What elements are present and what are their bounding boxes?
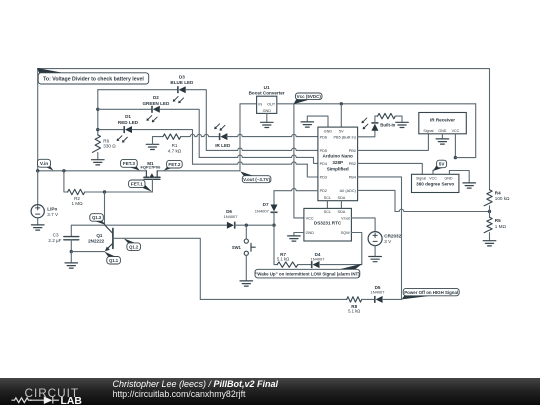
diode D3 BLUE LED [170, 74, 194, 103]
wire PD4 row [199, 155, 318, 163]
wire C3 bottom lead [70, 240, 72, 251]
svg-text:U1: U1 [264, 85, 270, 90]
flag Vcc (5VDC) [293, 93, 322, 104]
wire rail FET drain to V.out corner / U1 IN [157, 104, 256, 171]
svg-text:OUT: OUT [267, 102, 276, 106]
wire R5 top lead [489, 212, 491, 218]
svg-text:3 V: 3 V [384, 239, 392, 244]
wire U1 GND lead [266, 113, 268, 122]
wire PB5 lead [358, 131, 375, 137]
svg-text:1N4007: 1N4007 [255, 209, 270, 214]
svg-text:GND: GND [263, 109, 272, 113]
svg-text:100 kΩ: 100 kΩ [495, 196, 510, 201]
diode D7 1N4007 [255, 202, 278, 213]
svg-text:5.1 kΩ: 5.1 kΩ [277, 256, 289, 261]
wire PD2 row [274, 188, 318, 190]
flag V.out (~3.7V) [240, 171, 271, 182]
svg-text:5V: 5V [439, 162, 446, 167]
wire M1 gate lead [151, 179, 153, 192]
svg-text:Signal: Signal [423, 129, 433, 133]
wire SCL stub [326, 201, 328, 209]
svg-text:Arduino Nano: Arduino Nano [323, 153, 354, 158]
svg-text:R4: R4 [495, 190, 501, 195]
node junction Vcc/5V pin [340, 102, 343, 105]
svg-text:A0 (ADC): A0 (ADC) [340, 189, 357, 193]
svg-text:BLUE LED: BLUE LED [170, 80, 194, 85]
wire main rail V.in to FET source [38, 170, 147, 172]
resistor R8 [347, 297, 362, 314]
svg-text:FQP27P06: FQP27P06 [141, 165, 162, 170]
diode D4 1N4007 [310, 252, 325, 268]
svg-text:FET.1: FET.1 [131, 182, 143, 187]
ground Servo [463, 183, 476, 188]
svg-text:V.out (~3.7V): V.out (~3.7V) [243, 177, 270, 182]
flag FET.1 [129, 180, 152, 192]
svg-text:Vcc (5VDC): Vcc (5VDC) [297, 94, 322, 99]
wire PD3 row [193, 162, 318, 177]
wire PD5 row [206, 148, 318, 150]
ground DS3231 [288, 236, 301, 241]
diode D6 1N4007 [223, 209, 238, 229]
diode Built-In LED [362, 118, 396, 131]
wire CR2032 bottom lead [374, 246, 376, 257]
wire PB0 to IR Receiver Signal [358, 134, 429, 151]
flag Power Off on HIGH Signal [402, 288, 460, 299]
svg-text:R5: R5 [495, 218, 501, 223]
wire D3 anode to PD5 row [186, 90, 207, 151]
wire D6 cathode to junction [235, 224, 274, 226]
svg-text:1 MΩ: 1 MΩ [495, 224, 507, 229]
wire R2 left lead from rail [64, 171, 68, 192]
wire IR Receiver VCC lead [454, 134, 456, 158]
node junction R4/R5 [488, 210, 491, 213]
wire Vcc down to DS3231 VCC [294, 104, 304, 218]
svg-text:SCL: SCL [324, 196, 331, 200]
svg-text:Q1: Q1 [96, 233, 103, 238]
svg-text:CR2032: CR2032 [384, 234, 401, 239]
svg-text:PB2: PB2 [349, 162, 356, 166]
wire V.bat lead [351, 218, 375, 232]
wire PB2 to Servo Signal [358, 163, 423, 174]
wire collector row to D6 [105, 224, 227, 226]
wire DS3231 GND lead [294, 233, 304, 236]
resistor R3 built-in [378, 113, 396, 118]
svg-text:2.2 µF: 2.2 µF [48, 238, 61, 243]
wire R1 to IR LED cathode [181, 134, 220, 136]
ground R6 [92, 160, 105, 165]
svg-text:VCC: VCC [452, 129, 460, 133]
resistor R7 [277, 252, 298, 267]
svg-text:GND: GND [324, 130, 333, 134]
svg-text:Q1.1: Q1.1 [109, 258, 119, 263]
svg-text:328P: 328P [332, 160, 343, 165]
wire LED to R3 [375, 116, 378, 123]
svg-text:PB5 (Built In): PB5 (Built In) [334, 135, 357, 139]
flag 5V [433, 160, 447, 171]
flag note To: Voltage Divider to check battery level [37, 68, 149, 84]
resistor R6 [92, 135, 116, 153]
svg-text:4.7 kΩ: 4.7 kΩ [168, 148, 182, 153]
switch SW1 [232, 239, 255, 255]
svg-text:PD2: PD2 [320, 189, 327, 193]
svg-text:SDA: SDA [337, 210, 345, 214]
ground R5 [483, 241, 496, 246]
svg-text:LAB: LAB [61, 396, 83, 405]
wire R4 bottom lead [489, 206, 491, 212]
wire SDA stub [340, 201, 342, 209]
wire A0 to divider [358, 190, 490, 211]
svg-text:R6: R6 [103, 138, 109, 143]
node junction D2 row [96, 108, 99, 111]
svg-text:GND: GND [438, 129, 446, 133]
ground R1 [146, 144, 159, 149]
wire D7 anode lead [273, 191, 275, 205]
svg-text:GREEN LED: GREEN LED [142, 101, 169, 106]
wire LED cathode bus [97, 90, 99, 135]
transistor M1 FQP27P06 P-FET [141, 161, 162, 179]
flag Q1.3 [90, 214, 106, 225]
wire D4 anode to SQW [320, 233, 362, 265]
battery CR2032 3V [368, 232, 401, 246]
CircuitLab logo [12, 386, 83, 405]
wire Q1 base lead [113, 238, 200, 299]
op-amp U4 IR Receiver box [419, 113, 467, 134]
svg-text:VCC: VCC [306, 217, 314, 221]
ground CR2032 [369, 257, 382, 262]
svg-text:VCC: VCC [429, 176, 437, 180]
resistor R4 [484, 190, 510, 206]
svg-text:D7: D7 [263, 202, 269, 207]
wire R2 right lead to FET gate [85, 191, 153, 193]
op-amp U1 Boost Converter box [249, 85, 285, 113]
svg-text:SCL: SCL [324, 210, 331, 214]
wire SW1 top lead [245, 225, 247, 239]
svg-text:Boost Converter: Boost Converter [249, 91, 285, 96]
ground IR Receiver [436, 139, 449, 144]
wire D2 row left [98, 108, 152, 110]
wire Arduino GND pin lead [307, 116, 328, 127]
svg-text:IR LED: IR LED [215, 143, 231, 148]
wire Servo VCC lead [432, 170, 434, 174]
svg-text:V.in: V.in [40, 161, 48, 167]
svg-text:PB4: PB4 [349, 176, 356, 180]
svg-text:V.bat: V.bat [341, 217, 350, 221]
wire Arduino 5V pin lead [340, 104, 342, 127]
wire wake node down [274, 225, 277, 264]
wire R3 to ground [395, 116, 402, 122]
wire D7 cathode lead [273, 212, 275, 225]
capacitor C3 2.2uF [48, 232, 78, 243]
svg-text:R2: R2 [74, 196, 80, 201]
svg-text:LiPo: LiPo [47, 207, 57, 212]
flag FET.2 [164, 160, 182, 170]
wire IR LED anode to PD6 [226, 134, 318, 136]
op-amp U3 DS3231 RTC box [304, 208, 352, 241]
ground built-in [396, 122, 409, 127]
svg-text:C3: C3 [53, 232, 59, 237]
diode D2 GREEN LED [142, 95, 169, 122]
svg-text:3.7 V: 3.7 V [47, 212, 59, 217]
flag Q1.1 [104, 252, 120, 264]
diode D1 RED LED [117, 114, 139, 142]
svg-text:1 MΩ: 1 MΩ [71, 201, 83, 206]
resistor R1 [163, 134, 182, 153]
wire IR Receiver GND lead [441, 134, 443, 139]
node junction D1 row [96, 128, 99, 131]
wire Q1 collector lead [104, 192, 106, 225]
wire D3 row left [98, 89, 178, 91]
svg-text:SQW: SQW [341, 231, 350, 235]
flag V.in [38, 159, 54, 170]
node junction IR VCC [454, 156, 457, 159]
svg-text:330 Ω: 330 Ω [103, 144, 116, 149]
flag Q1.2 [124, 238, 141, 250]
node junction SW1 tap [245, 224, 248, 227]
svg-text:PD4: PD4 [320, 162, 327, 166]
svg-text:RED LED: RED LED [118, 120, 139, 125]
ground U1 [261, 122, 274, 127]
flag FET.3 [121, 159, 140, 170]
svg-text:Q1.3: Q1.3 [92, 215, 102, 220]
ground LiPo [31, 225, 44, 230]
svg-text:FET.2: FET.2 [168, 162, 180, 167]
svg-text:GND: GND [306, 231, 315, 235]
svg-text:D2: D2 [153, 95, 159, 100]
svg-text:1N4007: 1N4007 [310, 256, 325, 261]
diode D5 1N4007 [370, 285, 385, 303]
svg-text:Built-In: Built-In [380, 123, 395, 128]
svg-text:360 degree Servo: 360 degree Servo [416, 181, 454, 186]
wire LiPo bottom lead [37, 218, 39, 225]
svg-text:1N4007: 1N4007 [223, 214, 238, 219]
wire R7 to D4 [298, 264, 312, 266]
transistor Q1 2N2222 [88, 225, 113, 251]
svg-text:1N4007: 1N4007 [370, 289, 385, 294]
svg-text:"Wake Up" on Intermittent LOW: "Wake Up" on Intermittent LOW Signal (al… [255, 272, 360, 277]
wire Q1 base row to R8 [200, 298, 346, 300]
wire SW1 bottom lead [245, 255, 247, 281]
resistor R5 [484, 217, 506, 232]
svg-text:2N2222: 2N2222 [88, 238, 105, 243]
svg-text:Q1.2: Q1.2 [129, 244, 139, 249]
op-amp U5 360 degree Servo box [412, 174, 459, 192]
ground Arduino GND [301, 122, 314, 127]
node junction rail/LiPo [36, 169, 39, 172]
svg-text:To: Voltage Divider to check b: To: Voltage Divider to check battery lev… [43, 77, 144, 83]
ground SW1 [240, 281, 253, 286]
svg-text:Signal: Signal [416, 176, 426, 180]
ground C3 [65, 263, 78, 268]
wire emitter row [71, 251, 105, 253]
wire R6 bottom lead [97, 152, 99, 159]
wire D1 row left [98, 129, 124, 131]
svg-text:Power Off on HIGH Signal: Power Off on HIGH Signal [404, 290, 458, 295]
wire C3 top lead [71, 225, 105, 236]
svg-text:R1: R1 [172, 143, 178, 148]
wire D5 to PB4 corner [383, 298, 401, 300]
diode IR LED [214, 124, 231, 148]
svg-text:D3: D3 [179, 74, 185, 79]
svg-text:IN: IN [258, 102, 262, 106]
wire D2 anode to PD4 row [160, 109, 199, 157]
wire battery sense net: V.in up, across top, down right side [38, 69, 490, 190]
svg-text:5.1 kΩ: 5.1 kΩ [348, 309, 360, 314]
node junction rail/R2 [62, 169, 65, 172]
wire Vcc rail from U1 OUT [277, 103, 476, 105]
svg-text:D1: D1 [125, 114, 131, 119]
wire LiPo top lead [37, 171, 39, 205]
flag Wake Up on intermittent LOW signal [255, 264, 363, 278]
wire R8 to D5 [362, 298, 375, 300]
wire Vcc feed right side [455, 104, 475, 158]
svg-text:GND: GND [445, 176, 453, 180]
wire R5 to ground [489, 233, 491, 241]
op-amp U2 Arduino Nano 328P Simplified [318, 127, 358, 201]
node junction C3/emitter/gnd [70, 250, 73, 253]
battery LiPo 3.7V [31, 205, 59, 218]
wire R1 ground lead [153, 137, 164, 145]
wire PB4 down [358, 177, 402, 300]
svg-text:PD6: PD6 [320, 135, 327, 139]
svg-text:SDA: SDA [337, 196, 345, 200]
resistor R2 [68, 189, 85, 206]
svg-text:Simplified: Simplified [327, 167, 349, 172]
svg-text:FET.3: FET.3 [123, 161, 135, 166]
svg-text:IR Receiver: IR Receiver [430, 118, 455, 123]
wire Servo GND lead [449, 171, 469, 183]
wire C3 ground lead [70, 252, 72, 263]
svg-text:5V: 5V [339, 130, 344, 134]
svg-text:DS3231 RTC: DS3231 RTC [314, 221, 342, 226]
node junction D6/D7/wake [272, 224, 275, 227]
wire D1 anode to PD3 row [132, 130, 193, 165]
svg-text:PD3: PD3 [320, 176, 327, 180]
node junction R2/Q1 collector [103, 190, 106, 193]
svg-text:SW1: SW1 [232, 245, 242, 250]
